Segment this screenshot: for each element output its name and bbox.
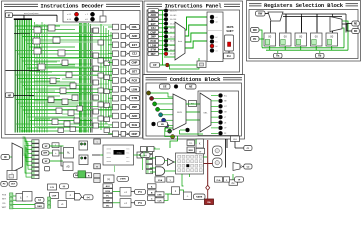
register R1 bbox=[280, 33, 292, 46]
AND gate A1 bbox=[156, 157, 165, 166]
oval 7F bbox=[235, 177, 244, 182]
mid vertical green wires bbox=[80, 23, 89, 133]
block frame: Instructions Decoder bbox=[2, 1, 143, 138]
pin FLA bbox=[215, 177, 223, 182]
logic gate G20 bbox=[64, 121, 70, 127]
svg-text:NV: NV bbox=[161, 124, 165, 126]
mid wires bbox=[113, 192, 135, 203]
svg-text:SET: SET bbox=[132, 69, 137, 73]
svg-text:RA: RA bbox=[207, 201, 211, 204]
decoder output row LDM bbox=[108, 87, 140, 93]
bottom LED mid bbox=[180, 128, 190, 132]
oval x bbox=[60, 184, 69, 189]
oval pc1 bbox=[135, 189, 146, 194]
oval label OTHER bbox=[117, 176, 129, 181]
decoder output row STM bbox=[108, 95, 140, 101]
svg-text:7e2: 7e2 bbox=[126, 156, 129, 159]
svg-text:00-0OR: 00-0OR bbox=[170, 11, 177, 13]
ROM bottom faded wire bbox=[114, 165, 116, 172]
decoder output row SET bbox=[108, 69, 140, 75]
panel vertical green wire bbox=[162, 11, 164, 66]
svg-text:Conditions Block: Conditions Block bbox=[170, 76, 221, 83]
svg-text:Instructions Decoder: Instructions Decoder bbox=[40, 2, 103, 9]
logic gate G23 bbox=[70, 127, 76, 132]
probe stack column bbox=[32, 140, 39, 179]
pin pair bottom-left bbox=[1, 182, 17, 187]
instruction select mux bbox=[175, 22, 185, 60]
oval w2 bbox=[82, 195, 94, 200]
svg-text:(PC): (PC) bbox=[138, 192, 142, 194]
wire IN to mux bbox=[10, 156, 13, 158]
svg-text:PCR: PCR bbox=[132, 78, 138, 82]
logic gate G37 bbox=[100, 16, 106, 22]
box ground bbox=[184, 192, 192, 200]
logic gate G16 bbox=[56, 108, 62, 114]
svg-text:AND: AND bbox=[132, 34, 138, 38]
svg-text:ORL: ORL bbox=[151, 10, 157, 13]
PC wire bbox=[259, 38, 264, 40]
logic gate G31 bbox=[98, 88, 104, 93]
inner border of Conditions Block bbox=[146, 83, 242, 136]
svg-text:Rst: Rst bbox=[227, 55, 231, 58]
svg-text:a0: a0 bbox=[216, 21, 218, 23]
adder box 1 bbox=[120, 188, 131, 197]
box f2 bbox=[224, 177, 230, 182]
svg-text:M: M bbox=[96, 167, 98, 169]
svg-text:LDM: LDM bbox=[150, 44, 155, 47]
output pin RD bbox=[352, 21, 360, 26]
svg-text:NE: NE bbox=[189, 85, 193, 88]
logic gate G29 bbox=[98, 73, 104, 78]
ALU box 1 bbox=[64, 148, 74, 159]
svg-text:OP: OP bbox=[153, 65, 157, 67]
panel LED 1 bbox=[210, 15, 218, 19]
svg-text:0111|1110|1010: 0111|1110|1010 bbox=[24, 12, 39, 15]
instruction row RET with LED bbox=[148, 52, 177, 56]
mux output wires to indicator panel bbox=[185, 17, 207, 48]
svg-text:MUX: MUX bbox=[177, 112, 182, 114]
WR wire bbox=[259, 30, 262, 48]
svg-text:SUB: SUB bbox=[132, 123, 138, 127]
mux small bbox=[233, 163, 242, 171]
instruction row PCR with LED bbox=[148, 39, 177, 43]
connector top bbox=[94, 139, 101, 144]
gate box b1 bbox=[53, 150, 60, 156]
register output green wires bbox=[262, 21, 348, 50]
svg-text:DO: DO bbox=[354, 31, 358, 33]
svg-text:ROM: ROM bbox=[105, 191, 110, 193]
green state box bbox=[78, 171, 86, 178]
flag pin GE bbox=[160, 84, 171, 89]
svg-text:REPS: REPS bbox=[227, 26, 234, 29]
wire clk bbox=[235, 142, 244, 149]
svg-text:SHIFT: SHIFT bbox=[226, 30, 234, 33]
svg-text:ALU: ALU bbox=[106, 185, 111, 188]
mux1 to mux2 wires bbox=[186, 104, 200, 120]
box v2 bbox=[167, 177, 174, 182]
decoder output row SUB bbox=[108, 122, 140, 128]
control flag RD bbox=[3, 201, 13, 205]
decoder output row PCR bbox=[108, 78, 140, 84]
decoder output row CZJ bbox=[108, 51, 140, 57]
adder box 2 bbox=[120, 199, 131, 208]
bottom-right green wires bbox=[144, 148, 207, 200]
panel bottom green wire bbox=[160, 58, 200, 69]
logic gate G21 bbox=[74, 118, 80, 123]
pin CLK top bbox=[231, 136, 240, 142]
svg-text:AD: AD bbox=[66, 166, 70, 169]
wire mux2 bbox=[242, 166, 244, 168]
decoder output row ORL bbox=[108, 24, 140, 30]
svg-text:a1: a1 bbox=[216, 17, 218, 19]
logic gate G38 bbox=[104, 61, 110, 66]
panel LED 6 bbox=[210, 49, 218, 53]
logic gate G2 bbox=[33, 38, 40, 44]
logic gate G12 bbox=[70, 83, 76, 89]
instruction row EXT with LED bbox=[148, 22, 177, 26]
logic gate G43 bbox=[104, 128, 110, 133]
logic gate G7 bbox=[38, 64, 45, 70]
svg-text:WRT: WRT bbox=[2, 207, 7, 209]
instruction row CMP with LED bbox=[148, 30, 177, 34]
logic gate G4 bbox=[48, 25, 55, 31]
wire ROM to probes bbox=[134, 155, 147, 170]
logic gate G39 bbox=[104, 75, 110, 80]
svg-text:LDM: LDM bbox=[132, 87, 138, 91]
decoder output row CMP bbox=[108, 60, 140, 66]
box 4 bbox=[66, 192, 75, 199]
control flag PUS bbox=[2, 193, 13, 197]
connector pair bottom bbox=[94, 174, 100, 183]
oval pc2 bbox=[135, 200, 146, 205]
box SUM bbox=[48, 184, 57, 190]
mid-left horizontal connection wires bbox=[34, 62, 93, 131]
pin PC bottom bbox=[229, 174, 238, 185]
oval out2 bbox=[244, 164, 252, 169]
bottom mux A bbox=[12, 143, 23, 172]
logic gate G36 bbox=[93, 123, 99, 128]
decoder output row ADD bbox=[108, 113, 140, 119]
panel LED 5 bbox=[210, 44, 218, 48]
pin COMP bbox=[50, 193, 59, 199]
oval out1 bbox=[244, 146, 252, 151]
pin CLK2 bbox=[155, 198, 164, 203]
logic gate G14 bbox=[62, 99, 68, 105]
logic gate G11 bbox=[60, 88, 66, 94]
input pin IR bbox=[6, 13, 13, 18]
svg-text:RET: RET bbox=[151, 53, 156, 56]
wires from condition LEDs to mux bbox=[151, 93, 175, 137]
right probe column bbox=[146, 150, 153, 174]
mid label column bbox=[103, 184, 113, 208]
register R3 bbox=[311, 33, 323, 46]
maroon wire to RA bbox=[207, 191, 209, 200]
svg-text:00-0SE: 00-0SE bbox=[170, 19, 177, 21]
svg-text:(x): (x) bbox=[63, 186, 66, 188]
logic gate G19 bbox=[52, 119, 58, 125]
register R0 bbox=[264, 33, 276, 46]
wire cond2 bbox=[195, 139, 197, 144]
right label column bbox=[148, 184, 157, 201]
instruction row ORL with LED bbox=[148, 9, 177, 13]
logic gate G6 bbox=[58, 50, 65, 56]
small box pair c1 bbox=[141, 147, 155, 152]
pin TO bbox=[187, 140, 195, 146]
svg-text:b0: b0 bbox=[216, 46, 218, 48]
bus splitter bar bbox=[14, 18, 32, 20]
gate AND b bbox=[16, 194, 26, 202]
svg-text:SET: SET bbox=[151, 18, 156, 21]
pin SP1 bbox=[43, 144, 50, 148]
long light-green horizontal wires bbox=[34, 25, 112, 127]
inner border of Instructions Panel bbox=[147, 10, 240, 72]
buffer gate bbox=[168, 159, 175, 166]
pin MEM bbox=[187, 147, 195, 153]
probe pin Rb bbox=[316, 51, 325, 58]
decoder status panel bbox=[63, 11, 103, 23]
maroon diamond junction bbox=[206, 185, 210, 190]
condition source LEDs (colored chain) bbox=[147, 91, 175, 139]
logic gate G9 bbox=[66, 72, 72, 78]
logic gate G3 bbox=[34, 48, 41, 54]
logic gate G40 bbox=[104, 89, 110, 94]
instruction row ADD with LED bbox=[148, 13, 177, 17]
instruction row STM with LED bbox=[148, 48, 177, 52]
register R4 bbox=[326, 33, 338, 46]
svg-text:JMP: JMP bbox=[151, 36, 156, 39]
ROM input wire bbox=[92, 154, 103, 156]
output pin DO bbox=[352, 29, 360, 34]
logic gate G35 bbox=[98, 116, 104, 121]
button box bbox=[197, 61, 206, 68]
demux fan-out wires bbox=[271, 14, 347, 33]
control flag SET bbox=[2, 197, 13, 201]
logic gate G42 bbox=[104, 117, 110, 122]
svg-text:ORL: ORL bbox=[132, 25, 138, 29]
ALU box 2 bbox=[63, 162, 73, 171]
AND gate A2 bbox=[156, 167, 165, 176]
svg-text:PUS: PUS bbox=[2, 195, 7, 197]
svg-text:JMP: JMP bbox=[132, 105, 138, 109]
pin DA bbox=[74, 173, 80, 178]
instruction row OP with red LED bbox=[150, 63, 169, 67]
wire cond to keypad bbox=[170, 136, 178, 148]
register read mux bbox=[330, 17, 342, 32]
mux to probe stack wires bbox=[23, 137, 32, 177]
svg-text:CMP: CMP bbox=[52, 196, 57, 198]
connector bottom bbox=[94, 164, 101, 169]
logic box L2 bbox=[79, 155, 88, 165]
16-bit instruction bus bundle bbox=[14, 20, 32, 133]
inner border of Instructions Decoder bbox=[5, 11, 140, 135]
pin ARF bbox=[42, 151, 50, 155]
svg-text:Instr: Instr bbox=[178, 40, 183, 43]
block frame: Conditions Block bbox=[143, 75, 245, 140]
instruction row CZJ with LED bbox=[148, 26, 177, 30]
wire from IR to bus splitter bbox=[13, 15, 58, 22]
oval NAME bbox=[194, 194, 206, 199]
component box with switch bbox=[7, 171, 17, 180]
logic gate G5 bbox=[53, 37, 60, 43]
black horizontal wires on left bbox=[6, 71, 41, 96]
svg-text:MEM: MEM bbox=[189, 150, 194, 152]
svg-text:Registers Selection Block: Registers Selection Block bbox=[264, 2, 344, 9]
svg-text:RAM: RAM bbox=[37, 205, 42, 208]
maroon vertical wire bbox=[207, 140, 209, 188]
logic gate G1 bbox=[34, 27, 41, 33]
svg-text:c0: c0 bbox=[216, 50, 218, 52]
logic gate G13 bbox=[48, 97, 54, 103]
maroon horizontal wire bbox=[204, 163, 213, 165]
block frame: Instructions Panel bbox=[144, 1, 243, 75]
input pin RW bbox=[256, 11, 266, 16]
panel LED 2 bbox=[210, 20, 218, 24]
black bus vertical bbox=[226, 139, 228, 168]
pin SP2 bbox=[43, 159, 50, 163]
logic gate G33 bbox=[98, 102, 104, 107]
svg-text:PC: PC bbox=[232, 183, 235, 185]
svg-text:(c): (c) bbox=[144, 155, 147, 157]
svg-text:CLK: CLK bbox=[157, 201, 162, 203]
bottom-left green wires bbox=[49, 146, 64, 166]
round component 1 bbox=[213, 146, 223, 156]
svg-text:VGA: VGA bbox=[158, 179, 163, 182]
svg-text:STM: STM bbox=[151, 49, 156, 52]
svg-text:ADD: ADD bbox=[132, 114, 138, 118]
svg-text:TO: TO bbox=[189, 143, 192, 145]
register R2 bbox=[295, 33, 307, 46]
svg-text:USB: USB bbox=[157, 195, 162, 197]
svg-text:CMP: CMP bbox=[132, 61, 138, 65]
logic gate G18 bbox=[77, 106, 83, 111]
decoder output row EXT bbox=[108, 42, 140, 48]
fanned instruction bit wires bbox=[35, 22, 48, 133]
svg-text:EXT: EXT bbox=[151, 23, 156, 26]
condition mux 2 bbox=[200, 93, 211, 132]
svg-text:PCR: PCR bbox=[151, 40, 156, 43]
svg-text:RD: RD bbox=[354, 23, 358, 25]
box plus1 bbox=[58, 201, 67, 208]
reset button bbox=[224, 53, 235, 59]
svg-text:(w): (w) bbox=[87, 197, 90, 199]
input pin PC bbox=[251, 37, 260, 42]
probe pin Ra bbox=[274, 51, 283, 58]
panel LED 3 bbox=[210, 35, 218, 39]
box INC bbox=[52, 143, 59, 148]
svg-text:CZJ: CZJ bbox=[151, 27, 156, 30]
LED dark 2 bbox=[90, 12, 94, 16]
logic gate G8 bbox=[62, 60, 68, 66]
box top2 bbox=[196, 139, 204, 148]
mux output wires bbox=[342, 24, 352, 32]
right vertical green wires bbox=[101, 24, 111, 130]
pin USB bbox=[155, 192, 164, 197]
svg-text:STM: STM bbox=[132, 96, 137, 100]
register select demux bbox=[268, 12, 283, 21]
label REPS SHIFT bbox=[226, 26, 234, 33]
condition mux 1 bbox=[173, 94, 186, 130]
svg-text:CZJ: CZJ bbox=[132, 52, 137, 56]
LED red phase bbox=[74, 12, 78, 16]
svg-text:GE: GE bbox=[163, 85, 167, 88]
wire RW to demux bbox=[265, 13, 269, 15]
svg-text:ADD: ADD bbox=[150, 14, 156, 17]
svg-text:CLK: CLK bbox=[233, 139, 238, 141]
logic gate G28 bbox=[93, 66, 99, 71]
svg-text:FLA: FLA bbox=[217, 179, 221, 182]
conditions sub-panel bbox=[198, 91, 239, 136]
svg-text:b2: b2 bbox=[216, 37, 218, 39]
logic gate G32 bbox=[93, 95, 99, 100]
conditions bottom green wire bbox=[180, 130, 204, 134]
wires near c bbox=[141, 149, 161, 156]
block frame: Registers Selection Block bbox=[247, 1, 361, 62]
logic gate G24 bbox=[93, 28, 99, 33]
shift switch bbox=[225, 35, 234, 51]
logic gate G41 bbox=[104, 103, 110, 108]
horizontal instruction bit branches bbox=[15, 26, 112, 131]
left control wires bbox=[13, 196, 35, 208]
box one bbox=[172, 187, 180, 195]
svg-text:TMP: TMP bbox=[106, 201, 111, 203]
indicator sub-panel frame bbox=[207, 12, 223, 62]
decoder output row JMP bbox=[108, 104, 140, 110]
box r2 bbox=[23, 192, 33, 202]
decoder output row AND bbox=[108, 33, 140, 39]
svg-text:(s): (s) bbox=[107, 179, 110, 181]
switch wire bbox=[228, 51, 230, 53]
box with symbol bbox=[104, 175, 115, 183]
svg-text:EXT: EXT bbox=[132, 43, 137, 47]
flag pin NE bbox=[186, 84, 197, 89]
LED dark 3 bbox=[90, 17, 94, 21]
svg-text:Instructions Panel: Instructions Panel bbox=[165, 2, 223, 9]
svg-text:0002: 0002 bbox=[107, 156, 112, 159]
instruction row SET with LED bbox=[148, 17, 177, 21]
inner border of Registers Selection Block bbox=[249, 10, 358, 59]
svg-text:NOP: NOP bbox=[132, 132, 138, 136]
svg-text:IR: IR bbox=[8, 13, 11, 17]
pentagon out bbox=[75, 194, 82, 201]
logic gate G30 bbox=[93, 80, 99, 85]
svg-text:NR: NR bbox=[8, 94, 12, 97]
logic gate G15 bbox=[72, 95, 78, 101]
svg-text:7e0a: 7e0a bbox=[116, 152, 122, 155]
logic box L1 bbox=[79, 141, 88, 150]
dark pin box bbox=[86, 173, 92, 178]
oval c2 bbox=[141, 153, 151, 158]
panel LED 4 bbox=[210, 40, 218, 44]
flag LED top bbox=[174, 85, 178, 89]
oval w1 bbox=[35, 198, 44, 203]
svg-text:NAME: NAME bbox=[196, 195, 203, 198]
svg-text:00-0AD: 00-0AD bbox=[170, 14, 177, 17]
logic gate G27 bbox=[98, 58, 104, 63]
keypad matrix bbox=[176, 153, 204, 174]
dark pin VGA bbox=[155, 177, 165, 182]
logic gate G34 bbox=[93, 109, 99, 114]
input pin NR bbox=[6, 93, 14, 98]
logic gate G22 bbox=[58, 128, 64, 133]
logic gate G26 bbox=[93, 53, 99, 58]
mux1 bottom LED bbox=[152, 122, 168, 127]
bottom input pin IN bbox=[1, 155, 10, 160]
input pin WR bbox=[251, 28, 260, 33]
svg-text:CMP: CMP bbox=[150, 31, 156, 34]
LED dark 1 bbox=[74, 17, 78, 21]
wires into mux bbox=[164, 27, 175, 57]
small green squares bbox=[48, 197, 51, 208]
